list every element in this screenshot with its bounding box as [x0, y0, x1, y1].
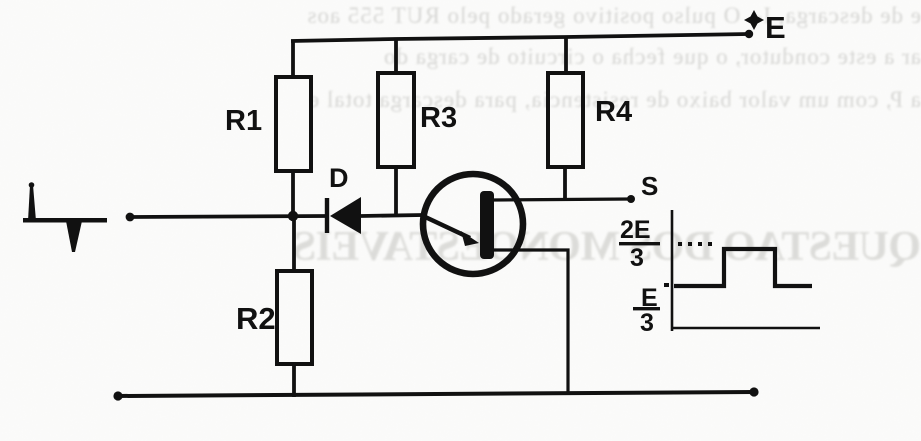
svg-text:E: E [765, 10, 786, 45]
bleed-through headline [0, 223, 921, 271]
graph time axis [672, 327, 820, 330]
node junction (R1/R2/input/diode) [288, 211, 298, 221]
transistor Q1 circle [423, 174, 523, 274]
wire diode to transistor [361, 215, 423, 216]
svg-text:R2: R2 [236, 301, 276, 336]
svg-text:D: D [329, 163, 349, 193]
input wire [130, 216, 326, 217]
transistor bottom wire [494, 250, 568, 394]
resistor R4 [548, 73, 583, 167]
transistor base bar [480, 191, 494, 259]
resistor R3 top lead wire [394, 39, 398, 73]
output terminal S dot [627, 195, 635, 203]
fraction bar E/3 [633, 307, 660, 310]
output pulse waveform [674, 249, 812, 286]
faint scan noise texture [0, 0, 1, 1]
node +E dot [745, 30, 753, 38]
bleed-through text line 1 [0, 3, 921, 29]
graph axis tick dot at E/3 [664, 283, 669, 287]
diode D cathode bar [325, 198, 329, 233]
bleed-through text line 2 [0, 44, 921, 70]
svg-text:S: S [641, 171, 658, 201]
svg-text:R1: R1 [225, 105, 262, 137]
resistor R2 bottom lead wire [292, 364, 296, 397]
svg-text:R4: R4 [595, 96, 632, 128]
svg-text:2E: 2E [620, 216, 651, 244]
threshold dotted line [678, 242, 712, 246]
fraction bar 2E/3 [619, 242, 660, 245]
top supply rail [291, 34, 749, 41]
ground rail right dot [749, 387, 758, 396]
ground rail left dot [113, 391, 122, 400]
resistor R4 top lead wire [564, 37, 568, 73]
output waveform graph [664, 210, 820, 331]
resistor R4 bottom lead wire [563, 167, 567, 201]
resistor R1 [276, 77, 311, 171]
resistor R3 [378, 73, 414, 167]
svg-text:3: 3 [630, 244, 644, 272]
resistor R1 top lead wire [291, 40, 295, 77]
input terminal dot [126, 213, 135, 222]
bleed-through text line 3 [0, 87, 921, 113]
resistor R1 bottom lead wire [291, 171, 295, 219]
graph vertical axis [671, 210, 674, 331]
diode D anode triangle [330, 197, 361, 234]
resistor R3 bottom lead wire [394, 167, 398, 215]
label +E [744, 10, 764, 30]
transistor emitter diagonal with arrow [421, 215, 470, 238]
svg-text:3: 3 [640, 309, 654, 337]
resistor R2 [277, 271, 312, 364]
transistor top (collector) wire to S [494, 199, 631, 200]
ground rail [118, 392, 754, 396]
resistor R2 top lead wire [292, 214, 296, 271]
svg-text:R3: R3 [420, 102, 457, 134]
input trigger waveform [23, 182, 107, 252]
